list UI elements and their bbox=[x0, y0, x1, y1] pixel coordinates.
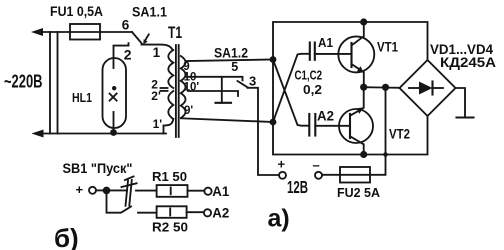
switch SA1.1 lever bbox=[132, 32, 142, 43]
switch SA1.2 frame bbox=[222, 77, 243, 103]
wire C2 to VT2 base bbox=[315, 125, 350, 127]
transformer T1 primary winding lower (2'-1') bbox=[168, 91, 173, 119]
terminal -12V bbox=[315, 172, 322, 179]
terminal A1 bbox=[204, 188, 211, 195]
fuse FU1 bbox=[70, 24, 100, 40]
fuse FU2 bbox=[340, 167, 370, 183]
junction lamp / mains bottom bbox=[110, 129, 117, 136]
svg-text:3: 3 bbox=[249, 74, 256, 89]
wire primary to mains bottom bbox=[164, 119, 174, 134]
svg-text:T1: T1 bbox=[168, 23, 182, 42]
wire emitters to bridge bbox=[364, 86, 400, 89]
wire mains vertical right bbox=[57, 32, 59, 134]
svg-text:FU1 0,5A: FU1 0,5A bbox=[50, 3, 103, 19]
transistor VT1 bbox=[338, 36, 374, 72]
lamp HL1 envelope bbox=[103, 58, 127, 128]
node ~220V input arrow bottom bbox=[32, 130, 44, 138]
svg-text:A2: A2 bbox=[212, 205, 229, 221]
svg-text:SA1.2: SA1.2 bbox=[214, 45, 248, 61]
junction VT1 collector / top rail bbox=[360, 18, 367, 25]
junction tap 9' / rail bbox=[270, 119, 277, 126]
wire SB1 to R1 bbox=[136, 190, 157, 192]
wire junction to SB1 bbox=[107, 189, 128, 191]
svg-text:HL1: HL1 bbox=[72, 90, 92, 105]
svg-text:5: 5 bbox=[231, 60, 238, 74]
svg-text:1: 1 bbox=[153, 45, 161, 60]
svg-text:VT2: VT2 bbox=[389, 126, 410, 142]
lamp HL1 gas dot bbox=[112, 86, 116, 90]
junction emitter rail bbox=[382, 84, 389, 91]
wire cross-coupling to C2 bbox=[273, 60, 309, 126]
wire lower branch to SB1 second pole bbox=[107, 190, 132, 212]
capacitor C1 bbox=[309, 43, 311, 60]
node contact 2 of SA1.1 (lamp branch) bbox=[114, 43, 129, 68]
svg-text:6: 6 bbox=[122, 17, 130, 32]
wire mains top bbox=[36, 31, 132, 33]
svg-text:SB1 "Пуск": SB1 "Пуск" bbox=[63, 161, 133, 176]
svg-text:FU2 5A: FU2 5A bbox=[337, 186, 380, 200]
wire lamp bottom pin bbox=[113, 112, 115, 134]
svg-text:R2 50: R2 50 bbox=[152, 220, 188, 235]
wire cross-coupling to C1 bbox=[273, 54, 309, 122]
transformer T1 core bbox=[175, 45, 177, 137]
lamp HL1 gas cross bbox=[110, 94, 117, 101]
svg-text:1': 1' bbox=[153, 117, 163, 131]
terminal + (b) bbox=[89, 187, 96, 194]
pushbutton SB1 bridge contacts bbox=[126, 181, 129, 206]
junction FU2 rail / bottom wire bbox=[383, 152, 388, 157]
wire + terminal to junction bbox=[96, 189, 103, 191]
junction tap 9 / rail bbox=[270, 56, 277, 63]
transistor VT2 bbox=[339, 109, 373, 143]
wire R2 to A2 terminal bbox=[187, 211, 204, 213]
wire R1 to A1 terminal bbox=[188, 190, 205, 192]
svg-text:12B: 12B bbox=[287, 177, 308, 197]
pushbutton SB1 actuator bbox=[125, 177, 134, 181]
transformer T1 secondary winding (9-10-10'-9') bbox=[181, 56, 186, 118]
wire tap 10 to SA1.2 bbox=[187, 76, 222, 78]
node ~220V input arrow top bbox=[31, 28, 43, 36]
svg-text:A1: A1 bbox=[318, 35, 333, 50]
wire left rail lower bbox=[273, 60, 428, 155]
svg-text:R1 50: R1 50 bbox=[152, 169, 187, 184]
capacitor C2 bbox=[308, 114, 310, 136]
wire SA1.2 contact 3 to +12V terminal bbox=[248, 88, 280, 175]
wire C1 to VT1 base bbox=[315, 53, 352, 55]
bridge output bar bbox=[457, 116, 474, 118]
svg-text:9': 9' bbox=[184, 105, 193, 117]
transformer T1 primary winding upper (1-2) bbox=[168, 50, 173, 88]
wire mains bottom bbox=[36, 133, 166, 135]
transformer T1 primary tap stubs 2 and 2' bbox=[161, 87, 168, 89]
svg-text:~220B: ~220B bbox=[4, 72, 43, 92]
svg-text:КД245A: КД245A bbox=[440, 55, 496, 70]
diode bridge VD1...VD4 bbox=[400, 60, 456, 116]
svg-text:A2: A2 bbox=[317, 108, 334, 124]
svg-text:0,2: 0,2 bbox=[303, 83, 322, 97]
svg-text:C1,C2: C1,C2 bbox=[295, 69, 323, 83]
svg-text:SA1.1: SA1.1 bbox=[132, 4, 167, 20]
switch SA1.2 lever bbox=[238, 81, 248, 87]
svg-text:+: + bbox=[76, 182, 84, 197]
svg-text:2': 2' bbox=[151, 89, 161, 103]
switch SA1.2 common bar bbox=[216, 102, 232, 104]
pushbutton SB1 lever bbox=[122, 183, 137, 187]
svg-text:2: 2 bbox=[124, 47, 132, 63]
wire -12V to FU2 and up to emitter rail bbox=[322, 87, 386, 175]
wire tap 9 to left rail bbox=[186, 60, 274, 62]
svg-text:VT1: VT1 bbox=[377, 39, 398, 55]
junction VT2 collector / bottom rail bbox=[360, 151, 367, 158]
svg-text:–: – bbox=[313, 158, 320, 173]
wire tap 10' to SA1.2 contact bbox=[188, 91, 238, 96]
wire bridge output right bbox=[456, 88, 466, 117]
terminal +12V bbox=[279, 172, 286, 179]
wire top rail (collector VT1) bbox=[273, 22, 428, 60]
svg-text:A1: A1 bbox=[212, 183, 229, 199]
wire SA1.1 to T1 pin 1 bbox=[142, 45, 173, 50]
wire mains vertical left bbox=[49, 32, 51, 134]
junction SB1 input bbox=[103, 187, 111, 195]
wire SB1 to R2 bbox=[138, 212, 157, 214]
svg-text:+: + bbox=[278, 157, 286, 172]
wire tap 9' to left rail bbox=[181, 118, 273, 122]
switch SA1.1 actuator arrow bbox=[145, 34, 149, 40]
svg-text:б): б) bbox=[54, 223, 79, 250]
resistor R2 bbox=[157, 206, 187, 218]
terminal A2 bbox=[204, 209, 211, 216]
diode symbol bbox=[409, 87, 419, 89]
junction emitters node bbox=[360, 84, 367, 91]
svg-text:a): a) bbox=[268, 205, 290, 233]
resistor R1 bbox=[157, 185, 188, 197]
